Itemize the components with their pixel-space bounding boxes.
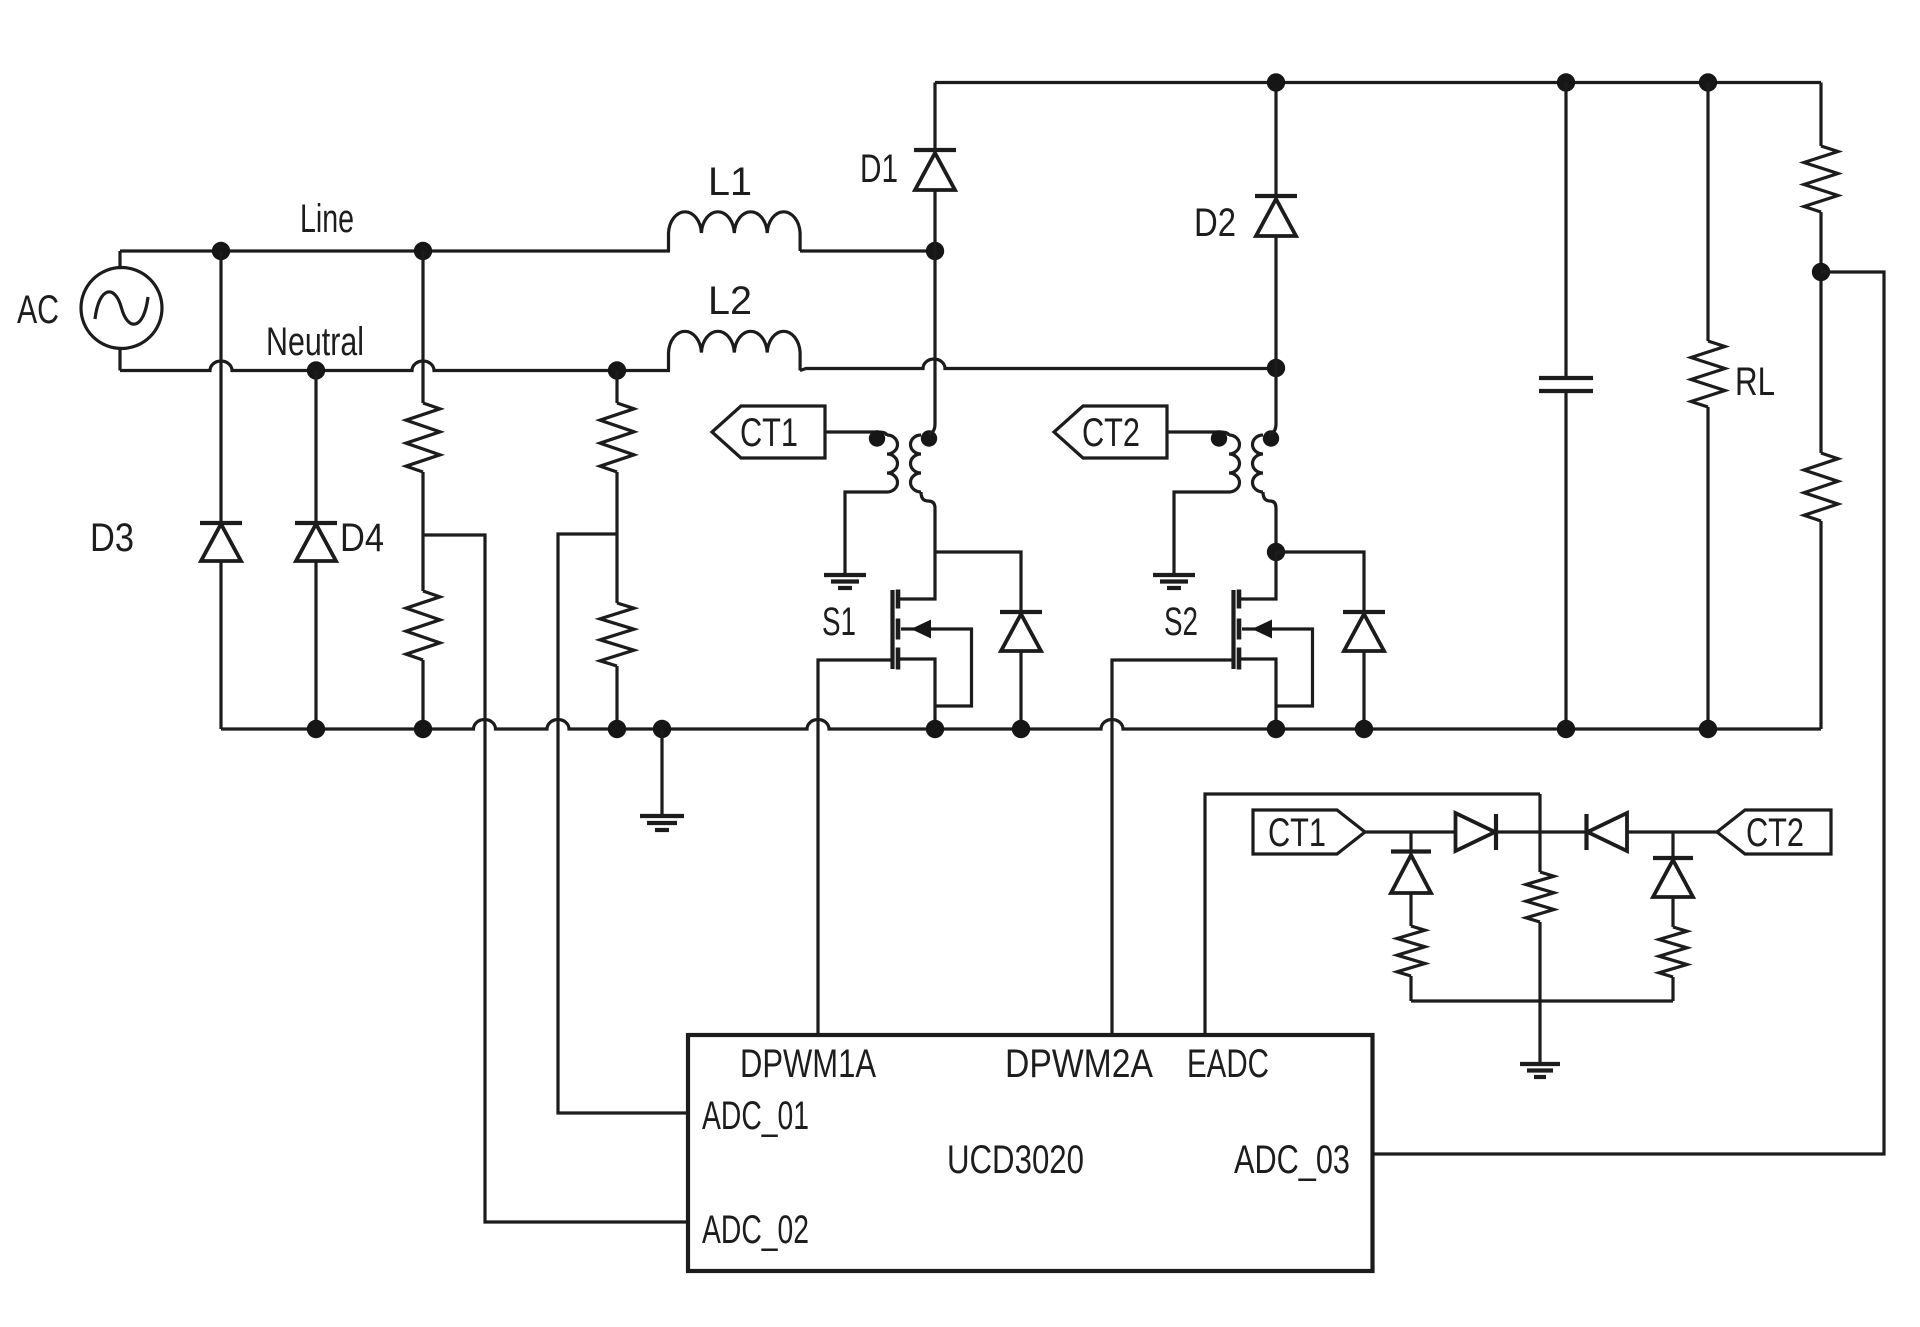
wire CT1 tag to network (1365, 830, 1411, 833)
node Neutral-R2 (608, 361, 626, 379)
wire R2 mid (615, 472, 618, 603)
resistor R1a (divider 1 upper) (421, 251, 424, 403)
diode D7 (series left-pointing) (1540, 813, 1673, 851)
node T2 secondary polarity dot (1211, 430, 1227, 446)
resistor R2a (divider 2 upper) (615, 371, 618, 404)
svg-text:UCD3020: UCD3020 (947, 1138, 1084, 1182)
svg-text:S2: S2 (1164, 600, 1198, 644)
node T1 primary polarity dot (921, 430, 937, 446)
wire R1 mid (421, 472, 424, 591)
transformer T2 secondary winding (1229, 435, 1240, 492)
wire CT1 tag to winding (825, 432, 887, 436)
svg-text:ADC_02: ADC_02 (702, 1208, 809, 1252)
node Neutral-D4 (307, 361, 325, 379)
svg-text:S1: S1 (822, 600, 856, 644)
node rail-ground (653, 720, 671, 738)
transistor Q S1 (MOSFET) (818, 552, 972, 1035)
wire R2b to rail (615, 666, 618, 729)
diode D4 (295, 371, 337, 730)
wire EADC net top line (1205, 794, 1540, 1035)
wire CT2 tag to winding (1167, 432, 1229, 436)
wire AC bottom bracket (120, 349, 122, 371)
transformer T2 primary winding (1253, 435, 1264, 492)
wire R5 to bus (1409, 976, 1412, 1001)
diode D1 (914, 83, 956, 252)
ground sense network (1520, 1064, 1560, 1077)
AC source V1 (81, 268, 162, 349)
svg-text:AC: AC (17, 288, 59, 332)
wire sense network bottom bus (1411, 999, 1673, 1002)
node rail-D4 (307, 720, 325, 738)
wire Neutral rail (hops over D3 and R1 columns) (120, 361, 670, 371)
diode D3 (200, 251, 242, 729)
svg-text:CT2: CT2 (1082, 411, 1140, 455)
svg-text:RL: RL (1735, 360, 1775, 404)
node rail-R1b (414, 720, 432, 738)
node rail-S1 body diode (1012, 720, 1030, 738)
svg-text:L2: L2 (708, 279, 752, 323)
svg-text:CT1: CT1 (740, 411, 798, 455)
wire Line rail (120, 249, 670, 252)
node Line-D3 (212, 242, 230, 260)
wire S2 column upper (node B through T2 primary) (1263, 368, 1276, 552)
diode D5 (left shunt) (1391, 832, 1431, 926)
ground T1 secondary (824, 575, 866, 588)
node rail-RL (1699, 720, 1717, 738)
resistor Rfb top (output divider upper) (1804, 83, 1838, 730)
node S2 drain junction (1267, 543, 1285, 561)
svg-text:L1: L1 (708, 160, 752, 204)
svg-text:D2: D2 (1194, 201, 1236, 245)
wire EADC center column (1538, 794, 1541, 872)
wire AC top bracket (120, 251, 122, 268)
ground rail (640, 816, 684, 830)
node top-RL (1699, 73, 1717, 91)
node T2 primary polarity dot (1263, 430, 1279, 446)
diode D2 (1255, 83, 1297, 369)
node B (L2/D2/S2) (1267, 359, 1285, 377)
wire tap to ADC_03 (1373, 272, 1885, 1154)
node top-Cout (1557, 73, 1575, 91)
wire bottom return rail (hops over ADC taps and DPWM lines) (221, 720, 1821, 730)
capacitor Cout (1539, 83, 1593, 730)
wire T1 secondary to ground (845, 492, 887, 575)
svg-text:Neutral: Neutral (266, 320, 364, 364)
node rail-R2b (608, 720, 626, 738)
wire R7 to bus (1671, 977, 1674, 1001)
diode S2 body (1276, 552, 1385, 729)
diode D8 (right shunt) (1653, 832, 1693, 927)
wire L1 to node A (800, 249, 935, 252)
current transformer CT1 tag (712, 406, 825, 458)
resistor RL (1691, 83, 1725, 730)
inductor L1 (669, 212, 801, 251)
svg-text:ADC_01: ADC_01 (702, 1094, 809, 1138)
resistor R5 (left shunt) (1397, 926, 1425, 976)
transistor Q S2 (MOSFET) (1112, 552, 1313, 1035)
node A (L1/D1/S1) (926, 242, 944, 260)
wire network to CT2 tag (1673, 830, 1717, 833)
IC U1 UCD3020 box (688, 1035, 1373, 1271)
svg-text:EADC: EADC (1187, 1042, 1269, 1086)
svg-text:D3: D3 (90, 516, 134, 560)
wire T2 secondary to ground (1174, 492, 1229, 575)
node rail-S2 source (1267, 720, 1285, 738)
wire rail ground stub (660, 729, 663, 816)
wire center column to ground (1538, 922, 1541, 1064)
current transformer CT2 tag (1054, 406, 1167, 458)
resistor R2b (divider 2 lower) (600, 603, 634, 666)
wire S1 column upper (node A through T1 primary) (921, 251, 935, 552)
wire L2 to node B (hops over S1 column) (800, 359, 1276, 371)
transformer T1 primary winding (911, 435, 922, 492)
svg-text:D4: D4 (340, 516, 384, 560)
svg-text:CT2: CT2 (1746, 811, 1804, 855)
node rail-Cout (1557, 720, 1575, 738)
svg-text:D1: D1 (860, 147, 898, 191)
ground T2 secondary (1153, 575, 1195, 588)
wire output top rail (935, 81, 1821, 84)
resistor R7 (right shunt) (1659, 927, 1687, 977)
node rail-S1 source (926, 720, 944, 738)
current transformer CT2 tag (sense network) (1717, 810, 1831, 855)
svg-text:CT1: CT1 (1268, 811, 1326, 855)
wire R1b to rail (421, 660, 424, 729)
node Line-R1 (414, 242, 432, 260)
svg-text:DPWM2A: DPWM2A (1005, 1042, 1153, 1086)
diode D6 (series right-pointing) (1411, 813, 1540, 851)
resistor R6 (center) (1526, 872, 1554, 922)
svg-text:DPWM1A: DPWM1A (740, 1042, 876, 1086)
node top-D2 (1267, 73, 1285, 91)
node output divider tap (1812, 263, 1830, 281)
wire tap divider2 to ADC_01 (558, 534, 688, 1113)
node T1 secondary polarity dot (869, 430, 885, 446)
svg-text:ADC_03: ADC_03 (1234, 1138, 1350, 1182)
inductor L2 (669, 331, 801, 370)
transformer T1 secondary winding (887, 435, 898, 492)
diode S1 body (935, 552, 1042, 729)
resistor R1b (divider 1 lower) (406, 591, 440, 660)
resistor Rfb bottom (output divider lower) (1804, 453, 1838, 521)
wire tap divider1 to ADC_02 (423, 535, 688, 1222)
current transformer CT1 tag (sense network) (1253, 810, 1365, 855)
node rail-S2 body diode (1355, 720, 1373, 738)
svg-text:Line: Line (300, 197, 354, 241)
